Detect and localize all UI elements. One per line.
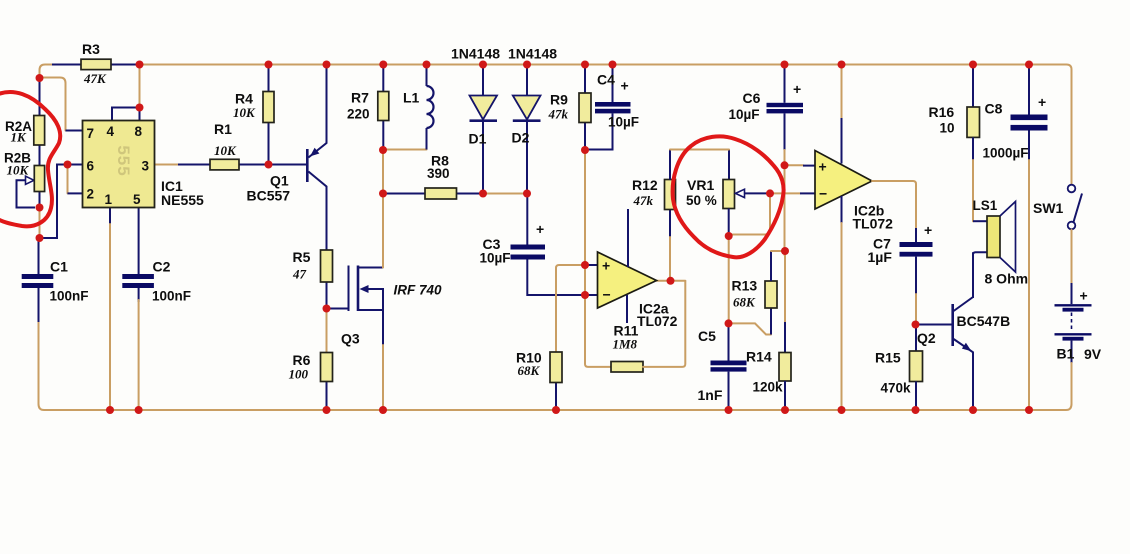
svg-text:−: − — [819, 186, 827, 202]
switch SW1 — [1068, 185, 1076, 193]
wire C7 top lead — [915, 228, 917, 242]
op-amp IC2b — [815, 151, 872, 210]
junction dot VR1 bottom — [725, 232, 733, 240]
svg-text:+: + — [819, 159, 827, 175]
junction dot IC2b plus — [781, 161, 789, 169]
svg-text:220: 220 — [347, 107, 370, 122]
wire C4 top lead — [612, 67, 614, 102]
junction dot IC2b power top — [838, 61, 846, 69]
svg-text:120k: 120k — [753, 380, 784, 395]
wire C1 node to pin6/2 — [43, 165, 68, 239]
junction dot IC2a output — [667, 277, 675, 285]
capacitor C2 plates — [122, 274, 154, 279]
svg-text:2: 2 — [87, 187, 95, 202]
svg-text:8 Ohm: 8 Ohm — [985, 271, 1029, 287]
svg-text:R5: R5 — [293, 249, 311, 265]
wire gate lead — [327, 308, 349, 310]
svg-text:10µF: 10µF — [480, 251, 511, 266]
wire R15 top lead — [915, 325, 917, 352]
junction dot D2 bottom — [523, 190, 531, 198]
junction dot C6 top — [781, 61, 789, 69]
junction dot gnd pin1 — [106, 406, 114, 414]
MOSFET Q3 drain stub — [358, 267, 383, 269]
wire R16 bottom to LS1 — [972, 137, 974, 162]
junction dot Q2 base C7 — [912, 321, 920, 329]
svg-text:D2: D2 — [512, 130, 530, 146]
op-amp IC2a — [598, 252, 657, 308]
annotation red circle around VR1 — [673, 136, 784, 257]
svg-text:390: 390 — [427, 166, 450, 181]
capacitor C7 plates — [900, 242, 933, 247]
wire C1 bottom lead — [38, 288, 40, 322]
wire C7 bottom lead — [915, 257, 917, 296]
svg-text:C5: C5 — [698, 328, 716, 344]
svg-text:R7: R7 — [351, 90, 369, 106]
resistor R11 — [611, 362, 643, 373]
junction dot IC2a minus node — [581, 291, 589, 299]
wire R13 top stub — [770, 251, 772, 281]
resistor R10 — [550, 352, 562, 383]
resistor R5 — [321, 250, 333, 282]
transistor Q2 emitter arrow — [962, 343, 972, 352]
junction dot Q1 emitter top — [323, 61, 331, 69]
svg-text:Q2: Q2 — [917, 330, 936, 346]
junction dot R9 C4 bottom — [581, 146, 589, 154]
junction dot gnd R14 — [781, 406, 789, 414]
svg-text:+: + — [793, 81, 801, 97]
junction dot gnd Q3 source — [379, 406, 387, 414]
wire C8 top lead — [1028, 67, 1030, 115]
wire pin2 drop — [67, 168, 69, 193]
transistor Q2 base bar — [951, 304, 954, 346]
junction dot gnd Q2 emitter — [969, 406, 977, 414]
svg-text:1000µF: 1000µF — [983, 146, 1029, 161]
svg-text:10K: 10K — [233, 105, 256, 120]
junction dot left rail pin7 — [36, 74, 44, 82]
wire jog to R13 bottom — [732, 323, 771, 334]
junction dot gnd C5 — [725, 406, 733, 414]
wire pin3 output — [155, 164, 181, 166]
wire plus node column IC2b — [784, 150, 786, 255]
junction dot C8 top — [1025, 61, 1033, 69]
capacitor C4 plates — [595, 102, 631, 107]
wire D2 top lead — [526, 67, 528, 95]
diode D2 — [513, 96, 541, 120]
resistor R16 — [967, 107, 980, 137]
junction dot VR1 wiper — [766, 189, 774, 197]
wire VCC drop to pins 4,8 — [139, 67, 141, 104]
transistor Q2 collector — [954, 252, 973, 311]
MOSFET Q3 gate bar — [348, 266, 350, 312]
junction dot gnd IC2b — [838, 406, 846, 414]
resistor R8 — [425, 188, 457, 199]
resistor R6 — [321, 353, 333, 382]
junction dot D1 top — [479, 61, 487, 69]
wire R10 bottom lead — [555, 383, 557, 411]
wire R11 right to output — [643, 281, 685, 367]
IC2b power stub bottom to ground — [841, 196, 843, 225]
junction dot D1 bottom — [479, 190, 487, 198]
wire R14 column — [784, 251, 786, 322]
junction dot R4 top — [265, 61, 273, 69]
svg-text:4: 4 — [107, 124, 115, 139]
svg-text:Q3: Q3 — [341, 331, 360, 347]
resistor R3 — [81, 59, 111, 69]
junction dot IC2a plus node — [581, 261, 589, 269]
wire pin7 lead — [66, 130, 84, 132]
wire C3 bottom to minus input — [527, 260, 585, 296]
svg-text:R3: R3 — [82, 41, 100, 57]
IC2a power stub top — [627, 209, 629, 267]
svg-text:IRF 740: IRF 740 — [394, 283, 443, 298]
resistor R2B — [34, 166, 44, 192]
junction dot R13 R14 — [781, 247, 789, 255]
svg-text:SW1: SW1 — [1033, 200, 1064, 216]
svg-text:BC547B: BC547B — [957, 313, 1011, 329]
svg-text:8: 8 — [135, 124, 143, 139]
svg-text:B1: B1 — [1057, 346, 1075, 362]
svg-text:C1: C1 — [50, 259, 68, 275]
wire VR1 wiper lead — [745, 192, 771, 194]
svg-text:555: 555 — [114, 145, 133, 176]
wire LS1 bottom to Q2 collector — [973, 252, 987, 298]
wire D2 bottom lead — [526, 121, 528, 194]
wire left rail R2A section — [39, 78, 41, 208]
battery B1 — [1071, 283, 1073, 304]
resistor R2A — [34, 116, 45, 146]
wire pin5 to C2 — [138, 208, 140, 275]
junction dot L1 R7 bottom — [379, 146, 387, 154]
junction dot gnd R15 — [912, 406, 920, 414]
svg-text:−: − — [603, 287, 611, 303]
svg-text:R12: R12 — [632, 177, 658, 193]
wire C5 bottom lead — [728, 372, 730, 410]
IC1 NE555 body — [83, 121, 155, 208]
svg-text:C6: C6 — [743, 90, 761, 106]
diode D1 — [470, 96, 498, 120]
junction dot R9 top — [581, 61, 589, 69]
svg-text:+: + — [1038, 94, 1046, 110]
wire SW1 to battery — [1071, 230, 1073, 285]
svg-text:C2: C2 — [153, 259, 171, 275]
transistor Q1 emitter arrow — [310, 148, 319, 157]
svg-text:+: + — [924, 222, 932, 238]
junction dot C1 top node — [36, 234, 44, 242]
junction dot gnd R6 — [323, 406, 331, 414]
svg-text:+: + — [536, 221, 544, 237]
wire R2B wiper — [17, 180, 36, 207]
svg-text:3: 3 — [142, 159, 150, 174]
svg-text:100: 100 — [289, 367, 309, 382]
wire R8 left lead — [383, 193, 425, 195]
MOSFET Q3 arrow — [360, 285, 369, 293]
svg-text:L1: L1 — [403, 90, 420, 106]
wire Q2 base lead — [916, 324, 952, 326]
resistor R1 — [210, 159, 239, 170]
wire C5 top lead — [728, 323, 730, 360]
wire C4 bottom to R9 node — [585, 113, 613, 149]
wire pin1 to ground — [109, 208, 111, 225]
resistor R13 — [765, 281, 777, 308]
annotation red circle around R2A R2B — [0, 92, 60, 226]
wire IC2a plus lead — [585, 264, 598, 266]
capacitor C6 plates — [767, 103, 804, 107]
junction dot gate node — [323, 305, 331, 313]
potentiometer VR1 — [723, 180, 735, 209]
svg-text:1M8: 1M8 — [613, 337, 638, 352]
MOSFET Q3 body stub with arrow — [358, 289, 383, 310]
wire D1 bottom lead — [482, 121, 484, 194]
wire VR1 bottom lead — [728, 209, 730, 237]
svg-text:+: + — [1080, 288, 1088, 304]
svg-text:10µF: 10µF — [729, 107, 760, 122]
svg-text:6: 6 — [87, 159, 95, 174]
wire top VCC rail — [111, 65, 1072, 185]
wire wiper down to VR1 bottom — [729, 196, 770, 238]
wire R6 top lead — [326, 309, 328, 353]
wire wiper node to IC2b minus — [770, 192, 800, 194]
svg-text:100nF: 100nF — [152, 289, 191, 304]
wire pin2 lead — [68, 192, 84, 194]
transistor Q1 base bar — [306, 149, 309, 182]
VR1 wiper arrow — [736, 189, 745, 197]
capacitor C3 plates — [511, 245, 546, 250]
svg-text:470k: 470k — [881, 381, 912, 396]
svg-text:C8: C8 — [985, 101, 1003, 117]
svg-text:47: 47 — [292, 267, 307, 282]
wire R2B bottom to C1 node — [39, 208, 41, 239]
wire drain column — [382, 150, 384, 268]
svg-text:BC557: BC557 — [247, 188, 291, 204]
svg-text:R15: R15 — [875, 350, 901, 366]
svg-text:TL072: TL072 — [853, 216, 894, 232]
wire R7 leads — [382, 67, 384, 148]
svg-text:D1: D1 — [469, 131, 487, 147]
wire R4 top lead — [268, 67, 270, 92]
wire R9 leads — [584, 67, 586, 150]
svg-text:NE555: NE555 — [161, 192, 204, 208]
svg-text:C4: C4 — [597, 72, 615, 88]
svg-text:R14: R14 — [746, 349, 772, 365]
transistor Q2 emitter — [954, 339, 973, 410]
wire IC2b output — [872, 181, 916, 230]
wire VR1 bottom node down to C5 — [728, 236, 730, 323]
svg-text:VR1: VR1 — [687, 177, 714, 193]
wire R3 left lead — [52, 64, 81, 66]
speaker LS1 — [987, 216, 1000, 258]
inductor L1 — [427, 86, 434, 128]
junction dot R16 top — [969, 61, 977, 69]
junction dot R2B bottom — [36, 204, 44, 212]
wire R4 bottom lead — [268, 123, 270, 165]
wire R16 top lead — [972, 67, 974, 107]
transistor Q1 collector — [308, 172, 326, 251]
wire bottom ground rail — [39, 320, 1072, 410]
wire L1 bottom lead — [426, 128, 428, 150]
svg-text:Q1: Q1 — [270, 173, 289, 189]
junction dot gnd C8 — [1025, 406, 1033, 414]
resistor R15 — [910, 351, 923, 382]
wire C2 bottom lead — [138, 288, 140, 302]
svg-text:7: 7 — [87, 126, 95, 141]
junction dot Q1 base node — [265, 161, 273, 169]
wire C6 bottom lead — [784, 113, 786, 150]
svg-text:10µF: 10µF — [608, 115, 639, 130]
resistor R14 — [779, 353, 791, 382]
IC2a power stub bottom — [626, 295, 628, 323]
svg-text:1N4148: 1N4148 — [508, 46, 557, 62]
resistor R4 — [263, 92, 274, 123]
svg-text:1: 1 — [105, 192, 113, 207]
junction dot gnd R10 — [552, 406, 560, 414]
capacitor C5 plates — [711, 361, 747, 366]
svg-text:1K: 1K — [11, 130, 28, 145]
svg-text:10: 10 — [940, 121, 955, 136]
wire plus input branch to R10 — [556, 265, 585, 352]
wire C6 top lead — [784, 67, 786, 103]
wire C8 bottom lead to ground — [1028, 131, 1030, 163]
wire pins 4,8 leads — [112, 108, 140, 121]
resistor R12 — [665, 180, 676, 210]
svg-text:47K: 47K — [83, 71, 107, 86]
junction dot pin6 node — [64, 161, 72, 169]
junction dot C5 top — [725, 319, 733, 327]
wire R12 top to VR1 top — [670, 150, 729, 180]
wire Q3 source to ground — [382, 310, 384, 345]
svg-text:+: + — [602, 258, 610, 274]
wire D1 top lead — [482, 67, 484, 95]
junction dot R3 right — [136, 61, 144, 69]
MOSFET Q3 channel bar — [357, 266, 360, 312]
junction dot L1 top — [423, 61, 431, 69]
capacitor C8 plates — [1011, 115, 1048, 121]
junction dot C4 top — [609, 61, 617, 69]
wire R5 bottom to gate node — [326, 282, 328, 309]
wire C3 top lead — [526, 194, 528, 245]
wire detector mid rail — [483, 193, 527, 195]
svg-text:+: + — [621, 78, 629, 94]
wire R12 bottom lead — [669, 210, 671, 240]
junction dot gnd C2 — [135, 406, 143, 414]
wire IC2b plus lead — [785, 164, 804, 166]
junction dot R7 top — [379, 61, 387, 69]
wire R3 right lead — [111, 64, 136, 66]
svg-text:100nF: 100nF — [50, 289, 89, 304]
svg-text:R16: R16 — [929, 104, 955, 120]
svg-text:47k: 47k — [633, 193, 654, 208]
wire R8 right lead — [457, 193, 484, 195]
wire R1 to Q1 base — [239, 164, 306, 166]
IC2b power stub top — [841, 67, 843, 120]
wire IC2a minus lead — [585, 294, 598, 296]
wire R6 bottom lead — [326, 382, 328, 411]
wire C1 top lead — [38, 238, 40, 274]
svg-text:R1: R1 — [214, 121, 232, 137]
svg-text:TL072: TL072 — [637, 313, 678, 329]
svg-text:47k: 47k — [548, 107, 569, 122]
svg-text:R9: R9 — [550, 92, 568, 108]
svg-text:68K: 68K — [733, 295, 756, 310]
wire minus to R11 feedback — [585, 295, 611, 367]
wire R14 bottom lead — [784, 381, 786, 410]
transistor Q1 emitter — [308, 67, 326, 158]
svg-text:10K: 10K — [214, 143, 237, 158]
capacitor C1 plates — [22, 274, 54, 279]
svg-text:9V: 9V — [1084, 346, 1102, 362]
svg-text:1nF: 1nF — [698, 387, 723, 403]
wire L1 top lead — [426, 67, 428, 86]
wire pin7 branch from left rail — [42, 78, 66, 131]
svg-text:1N4148: 1N4148 — [451, 46, 500, 62]
junction dot drain R8 node — [379, 190, 387, 198]
resistor R7 — [378, 92, 389, 121]
svg-text:68K: 68K — [518, 363, 541, 378]
wire L1 bottom to R7 node — [383, 149, 427, 151]
svg-text:10K: 10K — [7, 163, 30, 178]
svg-text:LS1: LS1 — [973, 198, 998, 213]
wire R15 bottom lead — [915, 382, 917, 411]
svg-text:5: 5 — [133, 192, 141, 207]
wire top rail left segment to R3 — [40, 65, 56, 79]
junction dot pins 4 8 — [136, 104, 144, 112]
wire IC2a output — [657, 280, 686, 282]
wire R13 bottom lead — [770, 308, 772, 335]
junction dot D2 top — [523, 61, 531, 69]
svg-text:R13: R13 — [732, 278, 758, 294]
wire pin6 lead — [68, 164, 84, 166]
resistor R9 — [579, 93, 591, 123]
svg-text:1µF: 1µF — [868, 249, 893, 265]
wiper arrow R2B — [26, 176, 35, 184]
svg-text:50 %: 50 % — [686, 193, 717, 208]
wire bias node column to op-amp inputs — [584, 150, 586, 295]
